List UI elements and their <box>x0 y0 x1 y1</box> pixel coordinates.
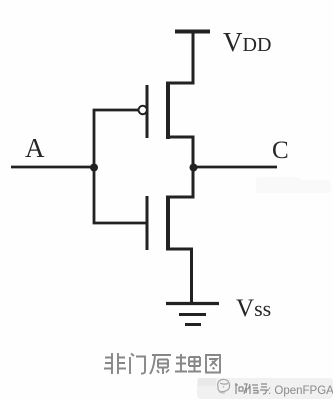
char 图 <box>206 355 220 373</box>
svg-text:Vss: Vss <box>236 295 271 322</box>
transistor Q1 PMOS gate bubble <box>139 106 147 114</box>
char 微 <box>235 383 247 394</box>
node output junction <box>190 164 198 172</box>
transistor Q2 NMOS channel bar <box>166 196 170 250</box>
wire output C <box>193 166 277 169</box>
transistor Q1 PMOS channel bar <box>166 82 170 139</box>
svg-text:C: C <box>272 137 289 164</box>
wire gate branch lower to NMOS gate <box>94 168 146 224</box>
wire output node to NMOS drain <box>166 168 193 198</box>
wire input A <box>11 166 94 169</box>
wire VDD stem to PMOS source <box>166 32 193 84</box>
ground symbol bar 1 <box>166 302 219 305</box>
char 号 <box>260 384 269 394</box>
char 原 <box>150 355 171 374</box>
transistor Q1 PMOS gate bar <box>146 85 149 138</box>
wire NMOS source to ground <box>166 249 192 302</box>
char 非 <box>104 353 126 374</box>
svg-text:: OpenFPGA: : OpenFPGA <box>268 385 333 397</box>
watermark text 微信号: OpenFPGA <box>235 383 269 394</box>
wire gate branch upper to PMOS bubble <box>94 110 139 168</box>
transistor Q2 NMOS gate bar <box>146 196 149 250</box>
char 理 <box>175 354 201 372</box>
wire PMOS drain to output node <box>166 137 193 168</box>
char 信 <box>248 384 258 394</box>
char 门 <box>130 354 145 375</box>
faint watermark smudge mid-right <box>256 177 331 193</box>
svg-text:A: A <box>25 133 45 163</box>
ground symbol bar 3 <box>185 323 201 326</box>
watermark logo icon <box>218 379 230 393</box>
title 非门原理图 (drawn as paths, grey) <box>104 353 220 374</box>
ground symbol bar 2 <box>179 313 206 316</box>
watermark strip background <box>197 378 333 399</box>
node input junction <box>90 164 98 172</box>
power rail VDD bar <box>175 30 210 34</box>
